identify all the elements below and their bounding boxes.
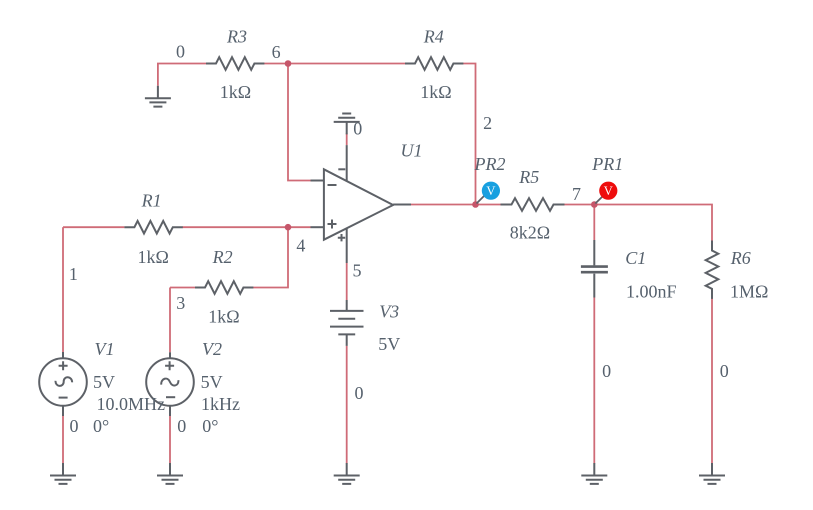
svg-text:5: 5: [353, 261, 362, 281]
svg-text:4: 4: [296, 236, 305, 256]
svg-text:V1: V1: [95, 339, 115, 359]
svg-text:0: 0: [353, 118, 362, 138]
svg-text:1kΩ: 1kΩ: [420, 82, 451, 102]
svg-text:0: 0: [602, 361, 611, 381]
svg-text:1kHz: 1kHz: [201, 394, 240, 414]
svg-text:V: V: [604, 184, 613, 198]
svg-text:5V: 5V: [378, 334, 400, 354]
svg-text:R5: R5: [518, 167, 539, 187]
svg-text:0: 0: [177, 416, 186, 436]
svg-text:6: 6: [272, 42, 281, 62]
svg-text:0: 0: [176, 42, 185, 62]
svg-text:0: 0: [720, 361, 729, 381]
svg-text:U1: U1: [401, 141, 423, 161]
svg-text:0: 0: [355, 383, 364, 403]
svg-text:2: 2: [483, 113, 492, 133]
svg-text:1MΩ: 1MΩ: [730, 281, 768, 301]
svg-text:R2: R2: [212, 247, 233, 267]
svg-text:1kΩ: 1kΩ: [220, 82, 251, 102]
svg-text:PR1: PR1: [591, 154, 623, 174]
svg-text:7: 7: [572, 184, 581, 204]
svg-text:1kΩ: 1kΩ: [138, 247, 169, 267]
svg-text:3: 3: [176, 293, 185, 313]
svg-text:PR2: PR2: [474, 154, 506, 174]
svg-text:8k2Ω: 8k2Ω: [510, 222, 550, 242]
svg-text:V3: V3: [379, 302, 399, 322]
svg-text:0°: 0°: [93, 416, 109, 436]
svg-text:1.00nF: 1.00nF: [626, 281, 677, 301]
svg-text:1: 1: [69, 264, 78, 284]
svg-text:10.0MHz: 10.0MHz: [97, 394, 166, 414]
svg-text:0°: 0°: [202, 416, 218, 436]
svg-text:1kΩ: 1kΩ: [208, 307, 239, 327]
svg-text:V2: V2: [202, 339, 222, 359]
svg-text:0: 0: [70, 416, 79, 436]
svg-text:R3: R3: [226, 26, 247, 46]
svg-text:R4: R4: [423, 26, 444, 46]
svg-text:R1: R1: [141, 191, 162, 211]
svg-text:5V: 5V: [93, 372, 115, 392]
svg-text:V: V: [486, 184, 495, 198]
svg-text:R6: R6: [730, 248, 751, 268]
svg-text:5V: 5V: [201, 372, 223, 392]
svg-text:C1: C1: [625, 248, 646, 268]
